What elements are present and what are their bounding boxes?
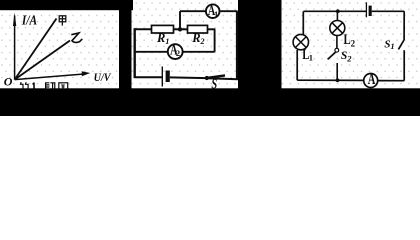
svg-text:I/A: I/A — [21, 13, 38, 28]
svg-text:2: 2 — [176, 48, 180, 58]
svg-text:1: 1 — [214, 9, 218, 19]
svg-text:O: O — [4, 75, 13, 89]
svg-text:A: A — [368, 70, 376, 88]
svg-text:U/V: U/V — [94, 71, 112, 84]
svg-text:2: 2 — [351, 38, 356, 48]
svg-text:1: 1 — [309, 52, 313, 62]
